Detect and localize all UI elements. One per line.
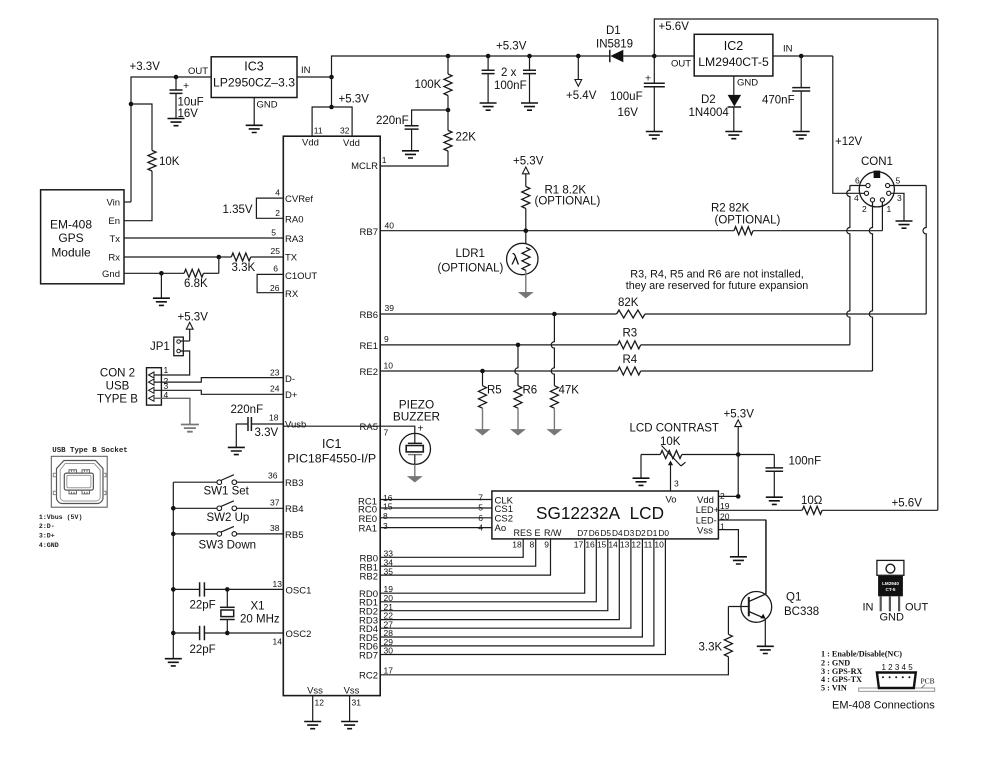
svg-text:RX: RX [285,289,299,300]
svg-text:39: 39 [385,303,395,313]
junction crystal OSC2 [225,631,230,636]
ground under IC3 [246,125,263,132]
svg-text:15: 15 [383,501,393,511]
wire C1OUT-RX loop [257,274,283,292]
svg-text:5: 5 [896,176,901,186]
svg-text:15: 15 [597,540,607,550]
svg-text:11: 11 [314,126,323,136]
svg-text:LP2950CZ–3.3: LP2950CZ–3.3 [213,76,295,90]
svg-text:16V: 16V [618,107,639,119]
wire RA3 to EM-408 Tx [124,237,283,239]
svg-text:GND: GND [737,78,758,89]
CON1 pin 6 [866,183,870,187]
crystal X1 20MHz [226,589,228,607]
svg-text:GND: GND [880,612,905,624]
svg-text:47K: 47K [559,385,580,397]
svg-text:1.35V: 1.35V [223,204,253,216]
svg-text:+5.3V: +5.3V [513,156,544,168]
resistor 6.8K [161,272,184,274]
svg-text:(OPTIONAL): (OPTIONAL) [535,195,601,207]
svg-text:6: 6 [273,264,278,274]
svg-text:3:D+: 3:D+ [39,532,55,539]
wire rail to D1 [578,55,610,57]
junction bus OSC2 [171,631,176,636]
junction RE1/R6 [516,343,521,348]
CON1 pin 1 [880,198,884,202]
wire +5.3V to LCD Vdd [737,455,739,497]
svg-text:10K: 10K [660,436,681,448]
capacitor 10uF 16V [175,77,177,90]
svg-text:25: 25 [271,246,281,256]
LM2940 package drawing [877,560,904,575]
ground CON1 pin3 [896,221,913,228]
resistor 100K [446,54,451,59]
capacitor 100nF LCD [738,454,774,456]
wire 10K branch [131,104,152,150]
resistor 47K [551,314,554,386]
svg-text:Vo: Vo [666,494,677,505]
svg-text:18: 18 [512,540,522,550]
svg-text:CT-5: CT-5 [886,587,896,592]
svg-text:22pF: 22pF [190,600,216,612]
transistor Q1 BC338 [741,592,772,623]
diode D2 1N4004 [728,95,742,107]
svg-text:(OPTIONAL): (OPTIONAL) [438,263,504,275]
svg-text:+5.6V: +5.6V [892,498,923,510]
svg-text:3: 3 [674,479,679,489]
svg-text:OSC1: OSC1 [286,585,312,596]
svg-text:IC2: IC2 [724,39,744,53]
svg-text:Gnd: Gnd [102,269,120,280]
capacitor 100nF a [486,54,491,59]
svg-text:24: 24 [270,384,280,394]
ground LDR1 [519,293,532,298]
ground under 10uF [168,119,185,126]
wire RA1 to Ao [380,527,443,529]
wire RD0 to LCD D7 pin 17 [380,539,585,593]
wire RB1 to LCD E pin 8 [380,539,536,566]
resistor R2 82K OPTIONAL [734,227,753,235]
svg-text:RB4: RB4 [285,504,303,515]
svg-text:5: 5 [271,227,276,237]
svg-text:RE2: RE2 [360,367,378,378]
junction bus RB4 [171,506,176,511]
svg-text:USB Type B Socket: USB Type B Socket [52,447,127,455]
svg-text:GND: GND [257,100,278,111]
junction Rx/3.3K [217,255,222,260]
ground under 100nF a [480,103,497,110]
ground switch bus [165,659,182,666]
microcontroller IC1 PIC18F4550-I/P [283,136,380,695]
capacitor 470nF [800,56,802,88]
svg-text:D1: D1 [606,25,621,37]
svg-text:CON1: CON1 [861,156,893,168]
wire CON2 pin2 to D- [154,378,283,383]
resistor R6 [515,345,518,386]
wire pot left to ground [640,455,642,479]
svg-text:D5: D5 [600,528,611,538]
svg-text:IN: IN [301,65,311,76]
photoresistor LDR1 OPTIONAL [525,231,527,244]
svg-text:6.8K: 6.8K [184,278,208,290]
svg-text:R3: R3 [623,328,638,340]
svg-text:RB6: RB6 [360,310,378,321]
svg-text:8: 8 [383,511,388,521]
ground buzzer [408,477,421,482]
junction Gnd/6.8K [159,271,164,276]
svg-text:En: En [108,216,120,227]
svg-text:EM-408: EM-408 [50,218,92,232]
wire IC3 OUT to IN junction [297,76,332,78]
svg-text:7: 7 [384,427,389,437]
svg-text:2 x: 2 x [501,67,517,79]
CON2 pin3 arrow [149,387,155,393]
wire 22K to MCLR [380,151,448,166]
svg-text:6: 6 [855,176,860,186]
CON2 pin1 arrow [149,372,155,378]
svg-text:4: 4 [275,187,280,197]
connector CON2 USB TYPE B [147,368,162,405]
svg-text:OUT: OUT [905,602,929,614]
ground Q1 [757,646,774,653]
ground 220nF Vusb [228,447,245,454]
svg-text:1: 1 [164,365,169,375]
svg-text:36: 36 [268,470,278,480]
svg-text:RD7: RD7 [359,650,378,661]
svg-text:14: 14 [608,540,618,550]
svg-text:3.3K: 3.3K [232,262,256,274]
svg-text:10uF: 10uF [178,97,204,109]
svg-text:9: 9 [384,334,389,344]
switch SW3 Down [173,533,217,535]
svg-text:Q1: Q1 [786,592,801,604]
svg-text:+5.6V: +5.6V [659,21,690,33]
svg-text:λ: λ [511,252,519,269]
svg-text:1N4004: 1N4004 [689,107,730,119]
wire RD4 to LCD D3 pin 13 [380,539,631,628]
svg-text:26: 26 [270,283,280,293]
switch SW2 Up [173,507,217,509]
wire CVRef-RA0 loop 1.35V [256,198,283,218]
wire Vdd pin 32 branch [332,107,353,136]
svg-text:12: 12 [631,540,641,550]
svg-text:19: 19 [720,501,730,511]
svg-text:RES: RES [514,528,533,538]
svg-text:10: 10 [654,540,664,550]
svg-text:LM2940: LM2940 [882,581,899,586]
resistor 22K [447,110,449,130]
resistor 3.3K [219,256,232,258]
wire CON1 pin3 to ground [891,193,904,221]
svg-text:17: 17 [384,666,394,676]
svg-text:22pF: 22pF [190,644,216,656]
svg-text:+12V: +12V [835,136,863,148]
ground LCD Vss [730,557,747,564]
svg-text:Ao: Ao [495,523,507,534]
CON1 pin 4 [864,191,868,195]
wire +12V drop [833,56,866,193]
svg-text:1 : Enable/Disable(NC): 1 : Enable/Disable(NC) [821,650,902,659]
wire RD7 to LCD D0 pin 10 [380,539,665,655]
ground 100nF LCD [766,497,783,504]
svg-text:R6: R6 [523,385,538,397]
svg-text:SW3 Down: SW3 Down [199,540,257,552]
ground EM-408 Gnd [153,298,170,305]
svg-text:D6: D6 [589,528,600,538]
svg-text:3: 3 [897,193,902,203]
svg-text:22K: 22K [456,132,477,144]
wire +5.6V right edge [937,19,939,510]
ground pot [633,478,650,485]
wire IC3 GND pin [253,98,255,126]
wire CON1 pin2 to RE2 row [869,202,872,371]
svg-text:23: 23 [270,368,280,378]
svg-text:10Ω: 10Ω [801,495,823,507]
svg-text:RE1: RE1 [360,341,378,352]
svg-text:10K: 10K [159,156,180,168]
ground 47K [548,430,561,435]
svg-text:OUT: OUT [671,59,691,70]
wire IC2 IN to 470nF [773,55,833,57]
svg-text:D-: D- [285,374,295,385]
svg-text:BC338: BC338 [784,606,819,618]
wire RD3 to LCD D4 pin 14 [380,539,619,620]
CON2 pin2 arrow [149,379,155,385]
resistor 3.3K base [724,634,732,657]
svg-text:17: 17 [574,540,584,550]
svg-text:GPS: GPS [58,231,83,245]
wire RC2 row to 3.3K [380,657,728,675]
wire CON1 pin5 to RB6 row [890,185,927,187]
junction crystal OSC1 [225,587,230,592]
wire EM-408 Rx [124,256,219,258]
CON1 pin 2 [870,198,874,202]
jumper JP1 [174,337,184,356]
svg-text:LED-: LED- [696,515,717,525]
capacitor 22pF OSC1 [173,588,199,590]
wire RE0 to CS2 [380,517,443,519]
wire Q1 collector [765,520,767,594]
wire buzzer to ground [414,464,416,476]
junction bus OSC1 [171,587,176,592]
wire CON2 pin4 to ground [154,398,190,424]
resistor 82K [617,310,645,318]
svg-text:IC3: IC3 [244,60,264,74]
svg-text:LM2940CT-5: LM2940CT-5 [698,55,769,69]
svg-text:D1: D1 [647,528,658,538]
svg-text:RB7: RB7 [360,227,378,238]
svg-text:D2: D2 [635,528,646,538]
wire RC0 to CS1 [380,507,443,509]
wire JP1 top pin [180,340,189,342]
ground Vss 12 [304,722,321,729]
svg-text:CON 2: CON 2 [100,368,135,380]
svg-text:1: 1 [382,155,387,165]
svg-text:+5.3V: +5.3V [724,409,755,421]
net +5.4V stub [576,54,581,59]
wire CON1 pin6 to RE1 row [850,185,866,187]
svg-text:D2: D2 [701,94,716,106]
wire RB2 to LCD R/W pin 9 [380,539,550,575]
svg-text:IN: IN [863,602,874,614]
junction 10K branch [129,102,134,107]
svg-text:SW1 Set: SW1 Set [204,486,250,498]
svg-text:31: 31 [352,698,362,708]
junction IC3 IN [329,75,334,80]
svg-text:IN: IN [783,44,793,55]
wire RD6 to LCD D1 pin 11 [380,539,654,646]
wire CON2 pin3 to D+ [154,390,283,394]
svg-text:RA5: RA5 [360,422,378,433]
svg-text:+5.3V: +5.3V [339,94,370,106]
svg-text:SG12232A LCD: SG12232A LCD [536,503,664,523]
regulator IC2 LM2940CT-5 [694,34,773,76]
svg-text:Vss: Vss [307,685,323,696]
svg-text:Tx: Tx [109,234,120,245]
wire RB0 to LCD RES pin 18 [380,539,523,557]
wire switch bus [173,481,217,483]
svg-text:BUZZER: BUZZER [393,410,440,424]
svg-text:RA0: RA0 [285,214,303,225]
ground CON2 pin4 [181,425,199,432]
svg-text:13: 13 [273,579,283,589]
svg-text:LDR1: LDR1 [456,248,485,260]
svg-text:7: 7 [478,493,483,503]
wire +3.3V rail [131,77,211,202]
svg-text:100nF: 100nF [494,80,527,92]
svg-text:37: 37 [270,497,280,507]
svg-text:IN5819: IN5819 [596,39,633,51]
svg-text:32: 32 [340,126,350,136]
svg-text:X1: X1 [251,601,265,613]
svg-text:R/W: R/W [544,528,562,538]
EM-408 GPS Module box [41,190,124,284]
junction RB7/R1 [524,228,529,233]
svg-text:10: 10 [384,361,394,371]
junction +3.3V/10uF [174,75,179,80]
svg-text:E: E [535,528,541,538]
svg-text:+5.4V: +5.4V [566,90,597,102]
ground under 470nF [793,132,810,139]
wire rail to Vdd branch [331,77,333,107]
wire IC2 GND pin [733,76,735,95]
svg-text:CVRef: CVRef [285,194,313,205]
display SG12232A LCD [492,491,719,539]
svg-text:18: 18 [269,413,279,423]
svg-text:MCLR: MCLR [351,161,378,172]
svg-text:Vdd: Vdd [343,138,360,149]
wire Q1 emitter to ground [764,618,766,646]
svg-text:JP1: JP1 [150,341,170,353]
svg-text:9: 9 [544,540,549,550]
ground under 100nF b [521,103,538,110]
svg-text:13: 13 [620,540,630,550]
junction 470nF [799,54,804,59]
junction 100uF/+5.6V [652,54,657,59]
svg-text:2: 2 [275,208,280,218]
svg-text:5 : VIN: 5 : VIN [821,684,847,693]
svg-text:3.3K: 3.3K [699,642,723,654]
svg-text:Vdd: Vdd [302,138,319,149]
svg-text:R4: R4 [623,354,638,366]
svg-text:EM-408 Connections: EM-408 Connections [832,700,935,712]
svg-text:Vss: Vss [697,525,713,536]
svg-text:1:Vbus (5V): 1:Vbus (5V) [39,514,83,521]
wire RD5 to LCD D2 pin 12 [380,539,642,637]
svg-text:4:GND: 4:GND [39,542,59,549]
svg-text:TX: TX [285,252,298,263]
svg-text:SW2 Up: SW2 Up [207,512,250,524]
svg-text:20 MHz: 20 MHz [240,614,280,626]
svg-text:+5.3V: +5.3V [178,312,209,324]
svg-text:1: 1 [887,204,892,214]
ground under 220nF [402,151,419,158]
wire Gnd junction to ground [160,273,162,298]
svg-text:IC1: IC1 [322,437,342,451]
svg-text:RB5: RB5 [285,530,303,541]
svg-text:D0: D0 [658,528,669,538]
svg-text:+5.3V: +5.3V [496,41,527,53]
wire RC1 to CLK [380,499,443,501]
resistor 10ohm [802,506,822,514]
svg-text:100K: 100K [415,79,442,91]
wire RD2 to LCD D5 pin 15 [380,539,608,611]
switch SW1 Set [217,480,222,485]
svg-text:LED+: LED+ [696,505,719,515]
ground Vss 31 [341,722,358,729]
svg-text:RA3: RA3 [285,234,303,245]
svg-text:+: + [183,80,189,92]
svg-text:40: 40 [385,221,395,231]
wire RB7 row [380,230,734,232]
capacitor 220nF (MCLR) [412,110,448,126]
svg-text:220nF: 220nF [231,404,264,416]
resistor R4 [618,367,641,375]
svg-text:TYPE B: TYPE B [97,393,138,405]
wire JP1 bottom to CON2 pin1 [151,351,190,375]
svg-text:RB2: RB2 [360,571,378,582]
CON1 pin 3 [887,191,891,195]
svg-text:LCD CONTRAST: LCD CONTRAST [630,423,719,435]
CON1 pin 5 [886,183,890,187]
svg-text:16: 16 [585,540,595,550]
svg-text:USB: USB [106,381,130,393]
regulator IC3 LP2950CZ-3.3 [211,57,297,98]
resistor R1 8.2K OPTIONAL [525,174,527,187]
wire CON1 pin1 to RB7 row [881,202,883,231]
wire +5.3V top rail [332,56,579,77]
svg-text:3.3V: 3.3V [255,427,279,439]
resistor 10K [148,150,156,171]
svg-text:PIC18F4550-I/P: PIC18F4550-I/P [287,452,376,466]
wire RB6 row [380,313,616,315]
svg-text:PCB: PCB [921,677,935,686]
svg-text:R5: R5 [487,385,502,397]
ground under D2 [725,132,742,139]
svg-text:D3: D3 [624,528,635,538]
svg-text:Rx: Rx [108,253,120,264]
svg-text:R3, R4, R5 and R6 are not inst: R3, R4, R5 and R6 are not installed, [630,269,803,281]
svg-text:Vss: Vss [344,685,360,696]
svg-text:14: 14 [273,637,283,647]
svg-text:RB3: RB3 [285,478,303,489]
resistor R5 [482,371,484,386]
svg-text:OSC2: OSC2 [286,629,312,640]
connector CON1 DIN [859,172,894,207]
svg-text:Module: Module [51,246,91,260]
capacitor 100nF b [527,54,532,59]
wire EM-408 Gnd [124,272,161,274]
